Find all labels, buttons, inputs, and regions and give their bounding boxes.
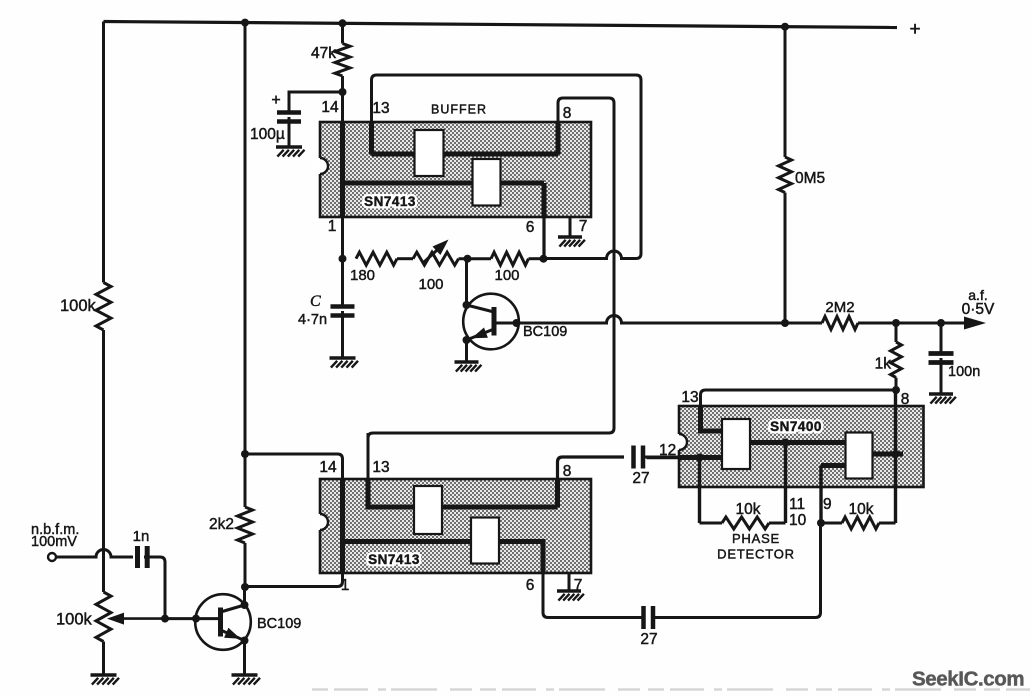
- wire: buffer pin6 down: [542, 183, 547, 217]
- svg-text:27: 27: [632, 470, 649, 487]
- transistor Q1 collector lead: [467, 305, 495, 312]
- arrow output af: [964, 317, 986, 330]
- wire: pins 11 10 vertical: [784, 443, 787, 524]
- svg-text:27: 27: [640, 631, 657, 648]
- wire: left rail middle segment: [102, 330, 105, 592]
- IC U3 SN7400 body: [679, 406, 924, 487]
- wire: cap27 to pin9: [653, 523, 821, 618]
- wire: lower pin6 down to cap27: [543, 573, 644, 618]
- node: collector junction Q2: [241, 583, 249, 591]
- svg-text:100: 100: [494, 267, 519, 284]
- node: pin9 junction: [817, 519, 825, 527]
- svg-text:180: 180: [350, 267, 375, 284]
- node: junction top rail / rail2: [241, 19, 249, 27]
- node: pin12 junction: [696, 454, 704, 462]
- wire: base link: [165, 617, 196, 620]
- capacitor C 4.7n: [331, 304, 355, 309]
- svg-text:4·7n: 4·7n: [298, 312, 327, 328]
- node: 1k junction: [892, 319, 900, 327]
- wire: sn7400 pin13 internal: [701, 406, 723, 431]
- wire: pin9 vertical: [819, 466, 822, 524]
- svg-text:BC109: BC109: [257, 616, 301, 632]
- ground buffer pin7: [558, 235, 582, 238]
- op IC U1 SN7413 buffer body: [320, 122, 591, 217]
- wire: lower pin14-1 internal: [340, 479, 345, 573]
- wire: row seg a: [397, 257, 413, 260]
- node: pin6 loop junction: [540, 255, 548, 263]
- wire: base output row: [517, 316, 823, 323]
- gate symbol U2b: [471, 518, 499, 564]
- wire: 10k left ends: [700, 522, 723, 525]
- svg-text:47k: 47k: [311, 45, 336, 62]
- wire: lower pin13 loop up: [367, 433, 370, 479]
- transistor Q2 BC109 body: [195, 594, 251, 650]
- capacitor 1n: [135, 546, 140, 568]
- svg-text:+: +: [909, 19, 920, 40]
- svg-text:2M2: 2M2: [825, 299, 854, 316]
- node: gate1 out junction: [782, 439, 790, 447]
- svg-text:100: 100: [418, 276, 443, 293]
- arrow wiper 100k: [115, 617, 165, 620]
- svg-text:SeekIC.com: SeekIC.com: [912, 668, 1024, 691]
- resistor 47k: [335, 44, 350, 77]
- resistor 100: [491, 252, 529, 265]
- wire: 100n to ground: [940, 358, 943, 393]
- wire: buffer pin1 to row: [341, 217, 344, 259]
- svg-text:100µ: 100µ: [250, 126, 285, 143]
- transistor Q1 emitter lead: [467, 329, 495, 340]
- potentiometer 100k lower: [96, 592, 111, 642]
- svg-text:13: 13: [372, 100, 389, 117]
- resistor 180: [356, 252, 397, 265]
- svg-text:7: 7: [579, 218, 588, 235]
- wire: buffer pin8 to inner loop: [368, 98, 614, 507]
- wire: rail3 top stub: [341, 23, 344, 43]
- resistor 2M2: [822, 317, 858, 330]
- ground under Q2 emitter: [232, 673, 258, 676]
- ground left rail: [91, 673, 117, 676]
- wire: rail2 to lower pin14: [245, 454, 343, 479]
- wire: output segment: [858, 322, 968, 325]
- arrow wiper pot100: [423, 246, 442, 264]
- wire: lower internal lower line: [343, 542, 544, 574]
- wire: buffer pin13 loop: [372, 75, 642, 259]
- wire: 1k top: [895, 323, 898, 342]
- svg-text:100n: 100n: [948, 364, 980, 380]
- gate symbol U2a: [414, 486, 442, 534]
- wire: C4.7n to ground: [341, 311, 344, 357]
- svg-text:8: 8: [563, 463, 572, 480]
- wire: rail2 below 2k2: [244, 543, 247, 588]
- wire: sn7400 middle line: [750, 440, 846, 445]
- wire: left rail upper segment: [102, 22, 105, 283]
- wire: pin8 internal vertical: [894, 390, 897, 454]
- wire: 10k right ends: [821, 522, 842, 525]
- svg-text:BC109: BC109: [523, 324, 567, 340]
- wire: 100u cap branch: [289, 92, 343, 111]
- capacitor 27 upper: [631, 446, 636, 469]
- wire: C4.7n branch: [341, 259, 344, 306]
- svg-text:14: 14: [321, 99, 339, 116]
- wire: gate2 output line: [873, 452, 904, 457]
- svg-text:DETECTOR: DETECTOR: [717, 547, 795, 562]
- gate symbol U1a: [415, 130, 444, 176]
- ground lower pin7: [557, 589, 581, 592]
- svg-text:10k: 10k: [849, 501, 874, 518]
- svg-text:SN7413: SN7413: [368, 552, 420, 567]
- transistor Q2 emitter lead: [221, 630, 245, 641]
- resistor 1k: [891, 342, 902, 378]
- svg-text:8: 8: [901, 391, 910, 408]
- svg-text:13: 13: [681, 389, 698, 406]
- node: gate2 out junction: [892, 450, 900, 458]
- svg-text:6: 6: [526, 219, 535, 236]
- wire: row seg c: [529, 257, 544, 260]
- node: rail2 / lower IC pin14 wire: [241, 450, 249, 458]
- wire: 27 to pin12: [643, 456, 679, 459]
- svg-text:SN7413: SN7413: [364, 194, 416, 209]
- capacitor C 100u polarized: [277, 110, 301, 115]
- wire: 0M5 top: [784, 27, 787, 157]
- svg-text:0·5V: 0·5V: [962, 301, 995, 318]
- svg-text:10: 10: [789, 512, 807, 529]
- capacitor 27 lower: [641, 606, 646, 629]
- node: 0M5 junction: [781, 319, 789, 327]
- transistor Q1 base bar: [492, 307, 497, 336]
- svg-text:10k: 10k: [736, 501, 761, 518]
- gate symbol U3b: [846, 433, 873, 479]
- node: 100n junction: [937, 319, 945, 327]
- wire: buffer pin14-pin1 internal: [340, 122, 345, 217]
- transistor Q2 base lead: [196, 617, 221, 620]
- transistor Q1 base lead: [494, 322, 517, 325]
- wire: top supply rail: [104, 22, 898, 28]
- wire: left rail bottom segment: [102, 642, 105, 676]
- svg-text:2k2: 2k2: [209, 516, 234, 533]
- wire: lower internal upper line: [368, 479, 558, 507]
- transistor Q1 BC109 body: [463, 294, 519, 350]
- wire: buffer pin7 stub: [569, 217, 572, 236]
- svg-text:13: 13: [372, 459, 389, 476]
- IC U2 SN7413 body: [320, 479, 591, 573]
- wire: 100u to ground: [288, 117, 291, 146]
- node: junction top rail / 47k: [339, 19, 347, 27]
- node: pin1 row junction: [339, 255, 347, 263]
- ground under C4.7n: [330, 356, 356, 359]
- svg-text:9: 9: [823, 496, 832, 513]
- svg-text:BUFFER: BUFFER: [431, 103, 487, 117]
- svg-text:1n: 1n: [133, 528, 150, 545]
- wire: row seg b: [459, 257, 492, 260]
- svg-text:1: 1: [328, 218, 337, 235]
- wire: input with hop: [57, 550, 134, 558]
- node: pin8 sn7400 junction: [892, 386, 900, 394]
- scan noise bottom band: [312, 688, 1030, 690]
- svg-text:100mV: 100mV: [31, 534, 77, 550]
- transistor Q2 base bar: [218, 608, 223, 637]
- wire: sn7400 pin9 line: [821, 463, 846, 468]
- wire: 0M5 bottom: [784, 193, 787, 324]
- wire: 1n to base node: [144, 557, 165, 619]
- svg-text:100k: 100k: [60, 297, 97, 315]
- node: collector junction Q1: [464, 255, 472, 263]
- wire: rail2 upper segment: [244, 23, 247, 507]
- svg-text:1k: 1k: [875, 356, 892, 373]
- resistor 0M5: [779, 157, 792, 193]
- svg-text:100k: 100k: [56, 611, 93, 629]
- wire: 1k bottom to pin8 node: [895, 378, 898, 391]
- svg-text:SN7400: SN7400: [770, 419, 822, 434]
- wire: pins11-10 tie down: [698, 458, 701, 524]
- svg-text:PHASE: PHASE: [732, 531, 780, 546]
- ground under 100u: [276, 145, 302, 148]
- ground under 100n: [929, 392, 953, 395]
- wire: buffer internal gate line upper: [372, 152, 559, 157]
- wire: sn7400 pin12 line: [647, 456, 723, 460]
- svg-text:0M5: 0M5: [795, 170, 825, 187]
- gate symbol U1b: [473, 159, 501, 206]
- node: wiper junction: [161, 615, 169, 623]
- resistor 10k left: [722, 517, 769, 529]
- wire: 100n branch: [940, 323, 943, 352]
- terminal input: [48, 553, 56, 561]
- wire: buffer internal gate line lower: [343, 181, 545, 186]
- svg-text:8: 8: [563, 105, 572, 122]
- wire: sn7400 pin13 top loop: [701, 390, 897, 431]
- wire: rail3 to buffer pin14: [341, 76, 344, 122]
- node: junction top rail / 0M5: [781, 23, 789, 31]
- ground under Q1 emitter: [455, 360, 479, 363]
- capacitor C 100n: [929, 351, 954, 356]
- node: 47k / 100u junction: [339, 88, 347, 96]
- svg-text:C: C: [310, 293, 321, 310]
- potentiometer 100 variable: [413, 252, 459, 265]
- wire: lower pin7 stub: [568, 573, 571, 590]
- resistor 10k right: [842, 517, 879, 529]
- gate symbol U3a: [722, 419, 750, 469]
- svg-text:14: 14: [319, 459, 337, 476]
- resistor R 100k upper: [96, 283, 111, 331]
- transistor Q2 collector lead: [221, 605, 245, 612]
- wire: lower pin1 down-left: [245, 573, 343, 587]
- svg-text:6: 6: [526, 577, 535, 594]
- resistor 2k2: [238, 507, 253, 543]
- wire: lower pin8 up and right: [558, 457, 625, 507]
- svg-text:11: 11: [789, 496, 805, 513]
- svg-text:+: +: [271, 92, 280, 109]
